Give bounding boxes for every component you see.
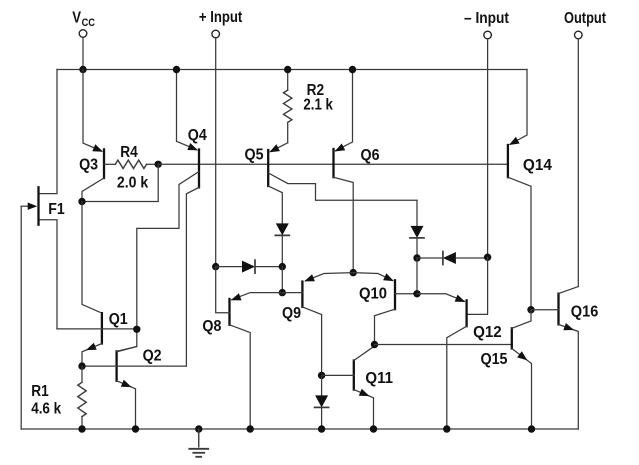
wire ground rail [21,428,578,430]
transistor Q3 [79,70,104,202]
svg-text:Q4: Q4 [188,127,207,144]
transistor F1 [21,187,65,329]
svg-text:Q10: Q10 [359,286,387,303]
node ground rail junctions [78,425,535,432]
terminal + Input [199,9,243,266]
transistor Q1 [57,202,137,367]
transistor Q11 [322,345,394,430]
transistor Q12 [417,294,502,429]
diode D1 from + input to D2 chain [216,260,283,273]
node Q1 emitter / R1 junction [78,362,85,369]
transistor Q15 [481,310,532,429]
svg-text:Q6: Q6 [361,147,380,164]
svg-text:Q15: Q15 [481,351,508,368]
svg-text:Q11: Q11 [365,370,393,387]
wire R4 junction down to Q3 collector [78,164,158,205]
node Q9 collector / Q11 base junction [318,372,325,379]
svg-text:– Input: – Input [464,10,510,27]
transistor Q4 [118,70,207,367]
diode D3 on Q5 collector chain [410,200,424,258]
svg-text:Output: Output [564,10,607,27]
terminal VCC [72,9,95,69]
wire F1 gate down to ground rail [20,206,22,429]
transistor Q16 [531,287,598,430]
node Q14/Q15 collectors / Q16 base junction [527,306,534,313]
node Q1 base / Q2 collector junction [133,326,140,333]
node Q10/Q11 collectors junction [371,341,378,348]
node + input / D1 junction [212,263,219,270]
transistor Q2 [82,347,186,430]
node R2 rail junction [284,66,291,73]
transistor Q10 [353,273,417,345]
diode D4 to - input [417,252,488,265]
node Q9/Q10 emitters junction [350,269,357,276]
svg-text:Q3: Q3 [79,156,98,173]
diode D2 below Q5 [275,223,289,266]
ground symbol [189,425,208,457]
svg-text:2.0 k: 2.0 k [117,175,148,192]
svg-text:+ Input: + Input [199,9,243,26]
node D3 / D4 junction [413,254,420,293]
terminal Output [564,10,607,287]
node - input junction [484,254,491,261]
resistor R2 [284,70,334,143]
terminal - Input [464,10,510,257]
transistor Q6 [334,70,380,273]
svg-text:CC: CC [82,17,95,29]
svg-text:Q16: Q16 [571,304,599,321]
node Q8 emitter / Q9 base junction [279,289,286,296]
resistor R1 [31,366,86,429]
transistor Q8 [202,267,282,429]
svg-text:Q1: Q1 [109,311,128,328]
svg-text:R1: R1 [31,383,49,400]
wire left drop from rail to F1 drain [40,70,57,194]
svg-text:Q9: Q9 [282,305,301,322]
wire Q15 base line [375,344,512,346]
svg-text:R4: R4 [120,144,138,161]
svg-text:4.6 k: 4.6 k [31,401,61,418]
node VCC rail junction [79,66,86,73]
svg-text:2.1 k: 2.1 k [303,96,333,113]
svg-text:Q5: Q5 [245,147,264,164]
wire main base line [158,163,508,165]
diode D5 above ground rail [315,375,329,429]
wire top VCC rail [57,69,527,71]
svg-text:Q12: Q12 [473,324,502,341]
wire - input down to Q12 base [468,257,488,314]
transistor Q14 [508,70,552,310]
node Q10 base / Q12 emitter junction [413,290,420,297]
node Q6 emitter rail junction [349,66,356,73]
svg-text:Q2: Q2 [143,348,162,365]
svg-text:Q14: Q14 [523,157,552,174]
svg-text:V: V [72,9,81,26]
resistor R4 [104,144,158,192]
svg-text:F1: F1 [48,201,65,218]
node D1/D2 junction [279,263,286,293]
transistor Q5 [245,143,418,223]
node Q4 emitter rail junction [173,66,180,73]
node R4 right junction [155,161,162,168]
transistor Q9 [282,273,353,376]
svg-text:Q8: Q8 [202,318,221,335]
